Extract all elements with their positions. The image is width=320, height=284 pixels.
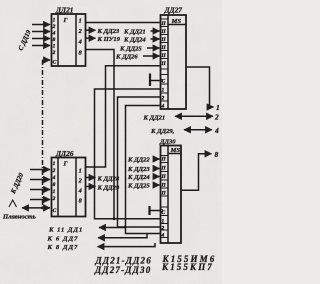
DD26 output arrow 1 (86, 177, 96, 179)
address wire 1: DD27 to DD28 (95, 89, 161, 219)
DD21 pin4 output arrow (86, 37, 96, 39)
caption line 2 (94, 262, 214, 275)
DD27 pin numbers (161, 21, 167, 110)
IC DD28 body (161, 146, 182, 244)
IC DD27 body (161, 15, 187, 109)
DD21 pin2 output arrow (86, 29, 96, 31)
Плавность exit arrow (22, 207, 43, 209)
DD21 input arrows from DD19 (32, 25, 50, 46)
IC DD26 body (52, 158, 86, 217)
dash-dot wire from DD21 C pin down to DD26 (42, 60, 44, 208)
exit arrow К ДД1 (99, 227, 125, 229)
IC DD26 left pin labels (52, 161, 57, 214)
wire DD26 pin1 up to DD27 input (86, 66, 161, 167)
address wire 3: DD27 to DD28 (126, 106, 161, 234)
DD26 output arrow 2 (86, 186, 96, 188)
DD27 left pin cell dividers (161, 19, 169, 101)
DD26 input arrows from DD20 (30, 170, 50, 200)
DD28 strobe level symbol (150, 206, 163, 215)
wire DD21 pin1 to DD27 input (86, 22, 161, 24)
junction pin8/addr1 (113, 217, 116, 220)
DD27 output wire to pin 1 (186, 67, 214, 107)
junction dot on dash wire (41, 206, 44, 209)
scan blotch overlay (0, 0, 222, 284)
exit arrow ВД7 (98, 243, 156, 247)
DD28 left pin cell dividers (161, 156, 169, 238)
junction addr2/exit (124, 226, 127, 229)
caption line 1 (95, 254, 217, 265)
bidirectional arrow pin 4 (184, 129, 212, 131)
pulse symbol (9, 200, 17, 207)
DD28 pin numbers (161, 157, 167, 239)
IC DD21 left pin labels (52, 18, 57, 66)
DD28 output wire to pin 8 (181, 154, 212, 191)
IC DD21 body (52, 14, 86, 66)
address wire 2: DD27 to DD28 (118, 97, 161, 227)
IC DD21 right pin labels (78, 18, 83, 57)
arrow into DD21 C pin (43, 59, 51, 61)
scan noise overlay (0, 0, 222, 284)
IC DD26 right pin labels (78, 168, 83, 205)
arrow into DD26 pin (lower stub) (43, 207, 51, 209)
exit arrow ПД2 (98, 234, 147, 238)
wire DD21 pin8 down to bus (86, 50, 114, 219)
DD27 strobe level symbol (150, 74, 163, 87)
bidirectional arrow pin 2 (175, 115, 213, 117)
